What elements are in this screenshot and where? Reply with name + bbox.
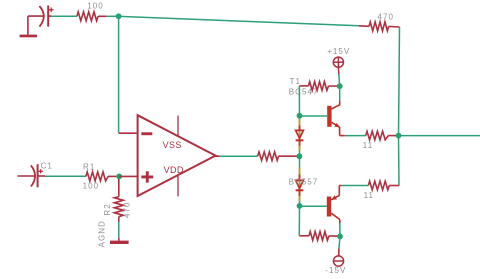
wire right vertical (470 to output node) xyxy=(399,27,400,136)
wire diode pin stubs (red-orange) xyxy=(299,125,301,196)
wire cap to resistor 100 xyxy=(51,15,77,17)
wire diode chain net xyxy=(299,117,301,205)
wire output to resistor xyxy=(220,155,258,157)
node (collector/-15V junction) xyxy=(337,234,343,240)
wire C1 to R1 xyxy=(45,175,86,177)
svg-text:VSS: VSS xyxy=(163,140,182,150)
svg-text:11: 11 xyxy=(364,191,374,200)
wire feedback (sloped top wire) xyxy=(119,16,359,26)
capacitor (top, polarized) xyxy=(39,6,53,27)
resistor 100 (top) xyxy=(77,12,107,21)
svg-text:R2: R2 xyxy=(103,203,112,215)
wire node to + input xyxy=(119,175,138,177)
node (non-inverting input junction) xyxy=(116,174,122,180)
resistor R2 (vertical) xyxy=(114,179,123,222)
resistor 470 (feedback, top-right) xyxy=(359,22,400,31)
svg-text:-15V: -15V xyxy=(325,266,346,275)
wire T2 base node down to bias corner xyxy=(298,206,300,236)
supply +15V xyxy=(333,57,343,74)
wire input stub (bottom-left) xyxy=(18,175,36,177)
svg-text:100: 100 xyxy=(87,2,104,11)
node (T1 base junction) xyxy=(297,113,303,119)
wire node to -15V xyxy=(339,236,340,256)
svg-text:VDD: VDD xyxy=(164,165,184,175)
wire diode chain blend (olive) xyxy=(299,118,301,201)
wire output node down xyxy=(398,136,401,186)
wire +15V to node xyxy=(338,74,341,86)
svg-text:R1: R1 xyxy=(83,163,95,172)
resistor 11 (lower) xyxy=(368,181,399,190)
node (T2 base junction) xyxy=(297,203,303,209)
resistor (op-amp output series) xyxy=(258,152,300,161)
wire ground drop xyxy=(27,16,29,35)
svg-text:11: 11 xyxy=(363,141,373,150)
resistor 11 (upper) xyxy=(366,131,399,140)
svg-text:BC557: BC557 xyxy=(289,177,319,186)
supply -15V xyxy=(333,256,343,266)
svg-text:AGND: AGND xyxy=(97,220,106,247)
resistor (T1 base bias) xyxy=(299,82,339,91)
wire op-amp output stub xyxy=(216,155,220,157)
node (output junction) xyxy=(396,133,402,139)
resistor R1 xyxy=(86,172,119,181)
wire resistor 11 lower to T2 emitter xyxy=(339,186,368,196)
transistor T2 BC557 xyxy=(327,195,340,236)
wire T2 base xyxy=(300,205,327,207)
wire - input stub xyxy=(119,132,138,134)
wire T1 base xyxy=(300,115,328,117)
wire AGND stub xyxy=(118,238,120,241)
ground AGND xyxy=(110,241,129,244)
transistor T1 BC547 xyxy=(327,86,340,135)
svg-text:T1: T1 xyxy=(290,77,301,86)
wire bias corner down to T1 base node xyxy=(298,86,300,116)
wire top-left input stub xyxy=(28,15,44,17)
wire R2 to AGND xyxy=(118,222,120,238)
resistor (T2 base bias) xyxy=(299,232,340,241)
svg-text:+15V: +15V xyxy=(327,47,350,56)
wire output to right edge xyxy=(399,135,480,137)
wire resistor to node xyxy=(107,15,119,17)
node (output resistor to diode midpoint) xyxy=(297,153,303,159)
diode D2 xyxy=(296,180,304,190)
node (top-left junction) xyxy=(116,13,122,19)
ground GND (top-left) xyxy=(20,35,37,38)
svg-text:470: 470 xyxy=(123,202,132,219)
wire node down to inverting input xyxy=(118,16,120,133)
diode D1 xyxy=(296,130,304,140)
svg-text:BC547: BC547 xyxy=(289,87,319,96)
op-amp U1 xyxy=(138,115,216,196)
wire T1 emitter to resistor 11 xyxy=(340,135,366,137)
node (collector/+15V junction) xyxy=(337,83,343,89)
svg-text:100: 100 xyxy=(83,181,100,190)
svg-text:C1: C1 xyxy=(41,161,53,170)
capacitor C1 (polarized) xyxy=(31,164,45,187)
